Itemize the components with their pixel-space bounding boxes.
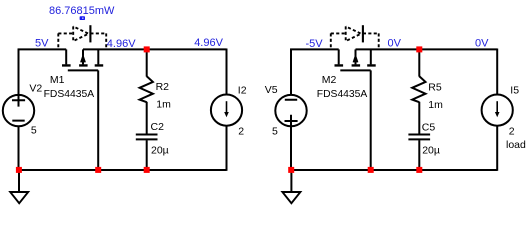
resistor R5	[412, 76, 425, 102]
svg-text:I2: I2	[238, 84, 247, 96]
wire top-right 0V net	[356, 48, 498, 50]
wire R2 top stub	[146, 49, 148, 76]
svg-text:V2: V2	[29, 82, 42, 94]
svg-text:1m: 1m	[156, 99, 171, 111]
wire R2 to C2	[146, 102, 148, 134]
svg-text:R5: R5	[428, 82, 442, 94]
svg-text:M1: M1	[50, 74, 65, 86]
ground left circuit	[10, 192, 28, 203]
wire left rail bottom (V2 to bottom wire)	[18, 126, 20, 170]
svg-text:0V: 0V	[388, 37, 402, 49]
svg-text:86.76815mW: 86.76815mW	[49, 5, 115, 17]
transistor M2 (PMOS FDS4435A)	[335, 49, 376, 70]
junction gate wire at ground rail	[95, 167, 101, 173]
body diode of M1 (dashed)	[58, 25, 106, 49]
wire M1 gate to bottom rail	[97, 70, 99, 170]
wire ground stub left	[18, 170, 20, 192]
junction C2 at ground rail	[144, 167, 150, 173]
svg-text:I5: I5	[510, 85, 519, 97]
wire C5 bottom	[418, 140, 420, 170]
junction node 0V (top)	[416, 46, 422, 52]
svg-text:load: load	[506, 139, 526, 151]
svg-text:4.96V: 4.96V	[194, 37, 223, 49]
svg-text:5: 5	[272, 125, 278, 137]
wire C2 bottom	[146, 140, 148, 170]
wire I2 rail bottom	[226, 125, 228, 171]
junction node 4.96V (top)	[144, 46, 150, 52]
wire right rail bottom (V5 to bottom wire)	[290, 126, 292, 170]
junction ground rail at V2	[16, 167, 22, 173]
wire I5 rail bottom	[496, 125, 498, 171]
current source I2	[211, 95, 242, 126]
wire R5 to C5	[418, 102, 420, 134]
wire right rail top (V5 to top wire)	[290, 49, 292, 96]
svg-text:2: 2	[238, 126, 244, 138]
capacitor C2	[136, 135, 158, 140]
ground right circuit	[282, 192, 300, 203]
svg-text:5: 5	[31, 124, 37, 136]
svg-text:-5V: -5V	[306, 38, 324, 50]
svg-text:0V: 0V	[475, 37, 489, 49]
svg-text:C5: C5	[422, 121, 436, 133]
voltage source V2	[3, 94, 34, 126]
current source I5	[482, 95, 513, 126]
svg-text:1m: 1m	[428, 99, 443, 111]
svg-text:V5: V5	[265, 84, 278, 96]
svg-text:R2: R2	[156, 81, 170, 93]
voltage source V5 (flipped)	[275, 95, 306, 128]
svg-text:20µ: 20µ	[422, 144, 440, 156]
svg-text:5V: 5V	[35, 37, 49, 49]
junction ground rail at V5	[288, 167, 294, 173]
wire bottom rail right circuit	[291, 169, 497, 171]
junction C5 at ground rail	[416, 167, 422, 173]
wire I5 rail top	[496, 49, 498, 95]
power probe marker	[80, 16, 85, 20]
transistor M1 (PMOS FDS4435A)	[62, 49, 103, 70]
wire ground stub right	[290, 170, 292, 192]
resistor R2	[140, 76, 153, 102]
wire top-left -5V net	[290, 48, 339, 50]
wire I2 rail top	[226, 49, 228, 95]
svg-text:4.96V: 4.96V	[107, 38, 136, 50]
body diode of M2 (dashed)	[331, 25, 379, 49]
wire top-right 4.96V net	[83, 48, 227, 50]
capacitor C5	[408, 135, 430, 140]
wire M2 gate to bottom rail	[370, 70, 372, 170]
svg-text:C2: C2	[151, 121, 165, 133]
wire top-left 5V net	[18, 48, 66, 50]
svg-text:FDS4435A: FDS4435A	[44, 88, 95, 100]
svg-text:FDS4435A: FDS4435A	[317, 88, 368, 100]
svg-text:2: 2	[509, 125, 515, 137]
wire left rail top (V2 to top wire)	[18, 49, 20, 96]
svg-text:20µ: 20µ	[151, 144, 169, 156]
junction gate wire at ground rail (right)	[368, 167, 374, 173]
svg-text:M2: M2	[322, 74, 337, 86]
wire bottom rail left circuit	[19, 169, 227, 171]
wire R5 top stub	[418, 49, 420, 76]
